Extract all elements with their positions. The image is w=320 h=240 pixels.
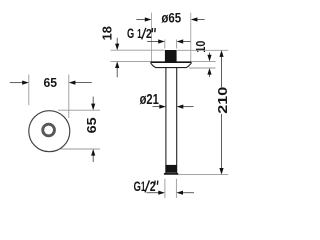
dim 65 vertical: top extension line: [58, 109, 100, 111]
svg-text:1: 1: [137, 26, 142, 41]
dim G1/2: right arrowhead: [177, 39, 184, 43]
dim 65 horizontal: right arrowhead: [69, 81, 76, 85]
escutcheon outer circle: [29, 111, 70, 152]
dim ø21: left tail: [153, 106, 160, 108]
flange (ceiling plate side view): [151, 62, 191, 67]
dim 65 horizontal: left arrowhead: [22, 81, 29, 85]
dim 65 horizontal: right tail: [75, 82, 92, 84]
dim 18: top extension line (thread top level): [111, 49, 165, 51]
svg-text:2: 2: [146, 26, 152, 41]
dim G1/2 bottom: right extension line: [175, 179, 177, 198]
dim 65 horizontal: right extension line: [68, 75, 70, 119]
dim G1/2: left arrowhead: [158, 39, 165, 43]
bottom thread block: [165, 165, 177, 173]
dim 210: bottom arrowhead: [219, 168, 223, 175]
dim ø65: right arrowhead: [191, 17, 198, 21]
dim ø21: right tail: [183, 106, 194, 108]
pipe right wall: [176, 68, 178, 174]
dim G1/2: left tail: [147, 41, 158, 43]
pipe bottom cap: [164, 173, 178, 175]
svg-text:65: 65: [44, 75, 58, 90]
dim 10: top arrowhead: [207, 55, 211, 62]
dim 65 vertical: bottom tail: [92, 155, 94, 162]
label G1/2 inch (bottom thread): [134, 178, 158, 194]
dim 18: top arrowhead: [115, 44, 119, 51]
dim 210: line lower segment: [221, 114, 223, 169]
pipe left wall: [165, 68, 167, 174]
dim G1/2 bottom: left extension line: [164, 179, 166, 198]
dim 65 vertical: top tail: [92, 97, 94, 104]
dim ø65: left extension line: [150, 13, 152, 62]
dim 210: bottom extension line: [179, 174, 229, 176]
top thread block: [165, 50, 177, 62]
dim G1/2: left extension line: [164, 40, 166, 49]
dim ø21: right arrowhead: [177, 105, 184, 109]
dim 10: bottom tail: [209, 74, 211, 77]
flange top edge (thick): [151, 61, 191, 63]
dim 65 vertical: bottom extension line: [61, 148, 100, 150]
dim 65 vertical: bottom arrowhead: [91, 149, 95, 156]
dim ø65: right tail: [197, 19, 205, 21]
svg-text:210: 210: [215, 87, 230, 114]
outlet ring: [43, 124, 55, 136]
dim ø65: left arrowhead: [145, 17, 152, 21]
dim 18: bottom extension line (ceiling level): [111, 60, 151, 62]
dim 210: line upper segment: [221, 56, 223, 87]
svg-text:ø65: ø65: [161, 9, 181, 25]
dim 10: bottom extension line: [189, 67, 216, 69]
svg-text:65: 65: [84, 117, 99, 133]
dim G1/2 bottom: right arrowhead: [176, 191, 183, 195]
label G 1/2 inch (top thread): [127, 26, 155, 41]
svg-text:G: G: [134, 178, 141, 194]
dim G1/2 bottom: left arrowhead: [158, 191, 165, 195]
dim 18: top tail: [116, 38, 118, 44]
dim G1/2 bottom: left tail: [147, 192, 159, 194]
dim 10: bottom arrowhead: [207, 68, 211, 75]
svg-text:18: 18: [100, 26, 115, 40]
dim ø65: left tail: [136, 19, 145, 21]
dim 65 horizontal: left tail: [10, 82, 23, 84]
dim ø21: left arrowhead: [159, 105, 166, 109]
svg-text:ø21: ø21: [140, 92, 159, 108]
dim 10: top tail: [209, 53, 211, 56]
dim 65 horizontal: left extension line: [28, 75, 30, 106]
dim 18: bottom tail: [116, 68, 118, 78]
svg-text:G: G: [127, 26, 134, 41]
dim G1/2: right extension line: [176, 40, 178, 49]
dim ø65: right extension line: [190, 13, 192, 62]
dim 210: top extension line: [177, 49, 228, 51]
svg-text:10: 10: [193, 41, 208, 53]
dim 65 vertical: top arrowhead: [91, 104, 95, 111]
dim 210: top arrowhead: [219, 50, 223, 57]
dim 18: bottom arrowhead: [115, 61, 119, 68]
dim G1/2 bottom: right tail: [183, 192, 194, 194]
dim G1/2: right tail: [183, 41, 191, 43]
dim 10: top extension line: [192, 60, 216, 62]
